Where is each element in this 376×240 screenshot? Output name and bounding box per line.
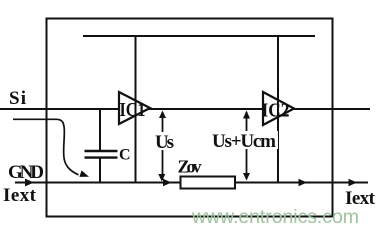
wire IC2 output line — [293, 108, 370, 110]
arrow Us (voltage across, double headed) — [151, 111, 177, 182]
capacitor C bottom lead — [99, 158, 101, 183]
svg-text:www.entronics.com: www.entronics.com — [191, 206, 359, 228]
arrow on Iext wire outside box — [349, 179, 358, 187]
op-amp IC2 — [263, 92, 294, 125]
svg-text:IC2: IC2 — [262, 100, 290, 122]
label C — [119, 147, 131, 164]
label Si — [9, 88, 26, 109]
svg-text:Zov: Zov — [178, 157, 202, 177]
svg-text:Iext: Iext — [3, 185, 37, 206]
label IC2 — [262, 100, 290, 122]
svg-text:Si: Si — [9, 88, 26, 109]
svg-text:Us+Ucm: Us+Ucm — [212, 131, 276, 152]
resistor Zov — [181, 177, 236, 189]
label Us — [155, 132, 174, 153]
watermark www.entronics.com — [191, 206, 359, 228]
svg-text:C: C — [119, 147, 131, 164]
svg-text:IC1: IC1 — [120, 99, 146, 121]
capacitor C plates — [85, 151, 118, 158]
op-amp IC1 — [119, 92, 150, 124]
wire Si input line — [0, 108, 119, 110]
shield box (outer guard enclosure) — [47, 19, 333, 217]
arrow on wire before Zov — [163, 179, 172, 187]
arrow Us+Ucm (voltage across, double headed) — [211, 111, 278, 181]
svg-text:Us: Us — [155, 132, 174, 153]
wire GND/Iext line left of Zov — [15, 182, 181, 184]
label Zov — [178, 157, 202, 177]
label IC1 — [120, 99, 146, 121]
capacitor C top lead — [99, 109, 101, 151]
wire GND/Iext line right of Zov — [234, 182, 368, 184]
label Iext (left) — [3, 185, 37, 206]
svg-text:GND: GND — [8, 162, 44, 183]
wire IC1 bootstrap vertical (rail through IC1 to ground line) — [135, 36, 137, 183]
wire IC2 bootstrap vertical (rail through IC2 to ground line) — [277, 36, 279, 183]
leakage squiggle arrow from Si to guard — [13, 119, 89, 177]
label Iext (right) — [345, 188, 376, 209]
label GND — [8, 162, 44, 183]
label Us+Ucm — [212, 131, 276, 152]
arrow on wire after IC2 ground junction — [299, 179, 308, 187]
wire IC1 output to IC2 input — [149, 108, 264, 110]
arrow on GND wire at left — [25, 179, 34, 187]
guard rail wire (inner top rail) — [83, 35, 315, 37]
